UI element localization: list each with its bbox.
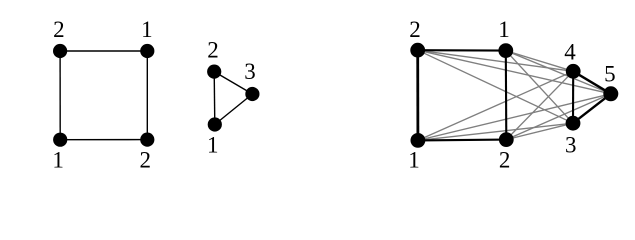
wire gray edge 1BL-5 <box>418 94 611 141</box>
svg-text:1: 1 <box>141 17 153 42</box>
wire gray edge 1BL-4 <box>418 71 573 140</box>
svg-text:2: 2 <box>207 37 219 62</box>
node 1 bottom-left of square <box>53 133 67 147</box>
wire gray edge 1TM-4 <box>506 51 573 72</box>
node 1 top-right of square <box>140 44 154 58</box>
svg-text:2: 2 <box>499 147 511 172</box>
wire gray edge 2TL-5 <box>418 50 611 94</box>
wire edge 2-1 left <box>59 51 61 140</box>
wire edge 2TL-1BL left <box>416 50 419 140</box>
node 3 of join triangle <box>566 116 581 131</box>
wire edge 1-2 bottom <box>60 139 147 141</box>
svg-text:2: 2 <box>140 148 152 173</box>
node 2 bottom-right of square <box>140 133 154 147</box>
node 2 bottom-middle of join square <box>499 132 514 147</box>
wire edge 1-3 <box>215 94 253 125</box>
svg-text:2: 2 <box>53 17 65 42</box>
svg-text:1: 1 <box>498 17 510 42</box>
node 2 top-left of join square <box>410 43 425 58</box>
svg-text:1: 1 <box>207 133 219 158</box>
wire gray edge 2BM-3 <box>506 123 573 139</box>
wire gray edge 1TM-5 <box>506 51 611 94</box>
wire edge 4-5 <box>573 71 611 94</box>
wire edge 2-3 <box>214 72 252 94</box>
node 3 of triangle <box>245 87 259 101</box>
wire edge 1BL-2BM bottom <box>418 139 506 142</box>
svg-text:1: 1 <box>408 148 420 173</box>
node 2 of triangle <box>207 65 221 79</box>
svg-text:5: 5 <box>604 62 616 87</box>
node 2 top-left of square <box>53 44 67 58</box>
wire edge 1-2 right <box>146 51 148 140</box>
wire gray edge 1TM-3 <box>506 51 573 124</box>
wire edge 3-5 <box>573 94 611 123</box>
svg-text:4: 4 <box>564 40 576 65</box>
node 5 of join triangle <box>603 86 618 101</box>
wire gray edge 2BM-4 <box>506 71 573 139</box>
wire edge 2-1 <box>213 72 216 125</box>
wire edge 4-3 <box>572 71 574 123</box>
right join graph : black edges <box>418 50 611 140</box>
svg-text:3: 3 <box>565 133 577 158</box>
wire edge 2-1 top <box>60 50 147 52</box>
node 1 bottom-left of join square <box>411 133 426 148</box>
node 1 of triangle <box>208 117 222 131</box>
wire gray edge 2BM-5 <box>506 94 611 140</box>
wire edge 2TL-1TM top <box>418 49 506 51</box>
wire gray edge 2TL-4 <box>418 50 574 71</box>
svg-text:1: 1 <box>52 148 64 173</box>
svg-text:2: 2 <box>409 17 421 42</box>
svg-text:3: 3 <box>244 59 256 84</box>
node 4 of join triangle <box>566 64 581 79</box>
middle triangle graph K3 <box>214 72 252 125</box>
wire edge 1TM-2BM middle vertical <box>505 51 508 140</box>
right join graph C4 + K3 : gray join edges <box>418 50 611 140</box>
wire gray edge 1BL-3 <box>418 123 573 140</box>
node 1 top-middle of join square <box>498 43 513 58</box>
left square graph C4 <box>60 51 147 140</box>
wire gray edge 2TL-3 <box>418 50 573 123</box>
